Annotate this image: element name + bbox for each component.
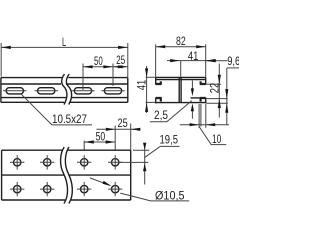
dimension 82 arrow left xyxy=(156,45,166,48)
dimension 9,6 arrow xyxy=(206,59,215,62)
dimension 50 arrow right xyxy=(103,65,113,68)
profile top flange outer xyxy=(156,76,206,78)
hole c2r1 xyxy=(40,155,54,169)
slot 2 centerline xyxy=(35,90,59,92)
profile bottom flange (thick) xyxy=(156,102,206,104)
slot 4 centerline xyxy=(101,90,124,92)
dimension 50/25 line xyxy=(83,66,128,68)
svg-text:25: 25 xyxy=(118,116,128,130)
dimension 41 left arrow top (outside, points down) xyxy=(145,68,148,77)
dimension 41 top line xyxy=(167,60,215,62)
svg-text:10.5x27: 10.5x27 xyxy=(52,112,87,126)
label diameter leader tail xyxy=(120,193,189,201)
dimension 50 extension (slot3 center) xyxy=(82,64,84,91)
label 2,5 leader xyxy=(150,101,192,122)
svg-text:19,5: 19,5 xyxy=(160,132,179,146)
hole c3r1 xyxy=(77,155,91,169)
svg-text:2,5: 2,5 xyxy=(154,108,168,122)
dimension 82 arrow right xyxy=(196,45,205,48)
dimension 10 arrow right (outside, points left) xyxy=(206,123,215,126)
svg-text:10: 10 xyxy=(212,132,222,146)
dimension 9,6 leader line xyxy=(206,60,227,62)
dimension 22 line xyxy=(218,64,220,118)
plate top edge xyxy=(2,149,131,151)
dimension L extension left xyxy=(0,43,2,77)
profile web right line xyxy=(180,77,182,103)
extension from profile right edge down xyxy=(205,104,207,128)
inner arrow pointing up xyxy=(191,103,194,111)
plate break right curve xyxy=(65,147,72,204)
slot 3 xyxy=(74,88,91,94)
dimension 50/25 extension (slot4 center) xyxy=(112,64,114,87)
dimension 9,6 bottom arrow down xyxy=(225,89,228,98)
label diameter leader arrow segment xyxy=(90,178,110,185)
dimension 25 arrow left xyxy=(113,65,123,68)
slot 1 centerline xyxy=(3,90,26,92)
dimension L line xyxy=(1,46,128,48)
dimension 19,5 arrow bottom (outside, points up) xyxy=(143,163,146,171)
plate bottom edge xyxy=(2,199,131,201)
break line right curve xyxy=(66,74,71,105)
svg-text:50: 50 xyxy=(94,54,103,68)
rail top edge xyxy=(1,77,128,79)
plate break left curve xyxy=(61,147,68,204)
hole c3r2 xyxy=(77,182,91,196)
dimension 22 arrow bottom (outside, points up) xyxy=(218,99,221,108)
rail left end xyxy=(0,78,2,103)
label 9,6 underline xyxy=(227,67,239,69)
inner vertical dimension line at web of right channel xyxy=(191,81,193,119)
inner arrow pointing down xyxy=(191,88,194,96)
extension line E2 (opening bottom) xyxy=(206,98,228,100)
label diameter arrowhead xyxy=(103,181,112,186)
svg-text:9,6: 9,6 xyxy=(227,54,239,68)
rail right end xyxy=(127,78,129,103)
dimension 10 bottom line xyxy=(180,124,229,126)
dimension 82 extension right xyxy=(205,44,207,77)
plate right end + extension up xyxy=(130,150,132,200)
dimension 9,6 bottom vertical line xyxy=(226,68,228,125)
dimension L extension right xyxy=(127,43,129,77)
dimension 19,5 extension bottom (row1 centerline) xyxy=(119,161,148,163)
hole c4r1 xyxy=(108,155,122,169)
profile top flange inner xyxy=(156,79,206,81)
break line left curve xyxy=(62,74,67,105)
dimension 50 bottom line xyxy=(84,141,115,143)
hole c1r1 xyxy=(10,155,24,169)
hole c1r2 xyxy=(10,182,24,196)
dimension 9,6 bottom arrow up xyxy=(225,103,228,112)
top-right lip xyxy=(205,77,207,84)
svg-text:41: 41 xyxy=(188,49,199,63)
svg-text:L: L xyxy=(62,35,66,49)
dimension 50 arrow left xyxy=(83,65,93,68)
slot 1 xyxy=(6,88,23,94)
hole c4r2 xyxy=(108,182,122,196)
dimension 50 bottom extension left xyxy=(83,141,85,150)
dimension 50 bottom arrow left xyxy=(84,140,94,143)
label 19,5 leader xyxy=(145,146,180,157)
slot 2 xyxy=(38,88,55,94)
extension from lip inner edge down xyxy=(198,104,200,128)
bottom-left lip xyxy=(155,98,157,104)
dimension 82 line xyxy=(156,46,206,48)
svg-text:Ø10,5: Ø10,5 xyxy=(155,188,185,202)
dimension 41 top extension (web) xyxy=(180,61,182,77)
plate middle line xyxy=(2,174,131,176)
dimension 10 arrow left (outside, points right) xyxy=(190,123,199,126)
dimension 41 top arrow left (outside) xyxy=(170,59,179,62)
rail bottom edge xyxy=(1,101,128,103)
rail inner bottom line xyxy=(1,97,128,99)
top-left lip xyxy=(155,77,157,84)
extension line E1 (opening top) xyxy=(206,83,221,85)
dimension 19,5 extension top xyxy=(133,149,149,151)
svg-text:25: 25 xyxy=(116,53,125,67)
plate left end xyxy=(1,150,3,200)
slot size label leader xyxy=(21,94,92,125)
svg-text:22: 22 xyxy=(207,83,221,94)
dimension 50/25 bottom extension right xyxy=(114,126,116,150)
dimension 41 left arrow bottom (outside, points up) xyxy=(145,103,148,112)
dimension 25 arrow right xyxy=(118,65,128,68)
dimension 41 left extension top xyxy=(146,76,156,78)
hole c2r2 xyxy=(40,182,54,196)
svg-text:41: 41 xyxy=(134,80,148,91)
extension line E3 (profile bottom) xyxy=(207,102,228,104)
profile web left line xyxy=(178,77,180,103)
dimension 41 left line xyxy=(146,66,148,113)
svg-text:50: 50 xyxy=(96,129,106,143)
dimension 25 bottom arrow right (outside, points left) xyxy=(131,128,140,131)
dimension L arrow right xyxy=(118,46,128,49)
dimension 50 bottom arrow right xyxy=(106,140,116,143)
dimension 22 arrow top (outside, points down) xyxy=(218,75,221,84)
rail inner top line xyxy=(1,83,128,85)
dimension 25 bottom line xyxy=(97,128,141,130)
dimension L arrow left xyxy=(1,46,11,49)
dimension 25 bottom arrow left (outside, points right) xyxy=(106,128,115,131)
slot 4 xyxy=(104,88,121,94)
dimension 41 left extension bottom xyxy=(146,101,156,103)
label 10 leader xyxy=(199,127,226,145)
slot 3 centerline xyxy=(71,90,94,92)
svg-text:82: 82 xyxy=(176,34,186,48)
extension from lip return down xyxy=(200,104,202,127)
bottom-right lip xyxy=(205,98,207,104)
dimension 19,5 arrow top (outside, points down) xyxy=(143,143,146,150)
dimension 41 top arrow right (outside) xyxy=(206,59,215,62)
dimension 19,5 line xyxy=(144,143,146,185)
dimension 82 extension left xyxy=(155,44,157,77)
